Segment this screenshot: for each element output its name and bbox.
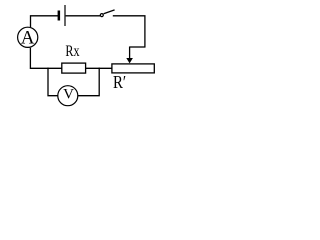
wire branch left node down to voltmeter — [48, 68, 58, 96]
wire from battery positive to switch — [66, 15, 100, 17]
label R' — [113, 72, 126, 92]
ammeter A — [18, 27, 38, 48]
label Rx — [65, 43, 79, 60]
voltmeter V — [58, 86, 78, 106]
resistor Rx body — [62, 63, 86, 73]
wire from Rx to rheostat left terminal — [86, 67, 112, 69]
rheostat slider arrow — [126, 47, 133, 64]
svg-text:Rx: Rx — [65, 43, 79, 60]
svg-text:A: A — [21, 28, 35, 49]
wire from battery negative to top-left corner and down to ammeter — [31, 16, 59, 27]
rheostat R' body — [112, 64, 154, 73]
battery cell — [58, 5, 65, 26]
wire from ammeter down to main node and to Rx — [30, 48, 61, 69]
switch S (open knife switch) — [100, 10, 114, 17]
svg-text:R′: R′ — [113, 72, 126, 92]
wire from switch to top-right corner and down — [113, 16, 145, 47]
svg-text:V: V — [63, 86, 74, 102]
wire from voltmeter right up to main wire — [78, 68, 99, 96]
wire jog to rheostat slider — [130, 46, 146, 48]
